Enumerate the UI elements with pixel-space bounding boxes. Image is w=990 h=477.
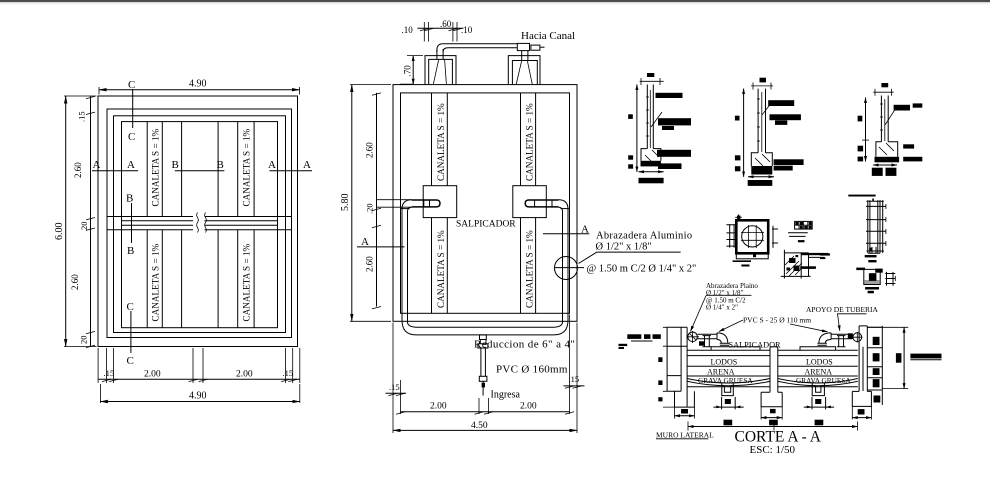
pipe run left [698, 334, 718, 338]
dim .15 bottom-left of tank [386, 392, 407, 394]
svg-text:CANALETA S = 1%: CANALETA S = 1% [525, 230, 535, 308]
left feed pipe black bar [627, 334, 641, 339]
pipe left nozzle bullet [412, 200, 440, 207]
left wall rebar squares [658, 357, 662, 362]
dim 4.50 bottom [393, 315, 577, 434]
wire inner tank rect [401, 93, 570, 313]
circle [742, 226, 763, 247]
svg-text:C: C [127, 301, 134, 313]
label blob top [881, 83, 888, 87]
text blobs right [768, 100, 794, 106]
dim .70 inlet height [412, 56, 414, 85]
svg-text:Ø 1/4" x 2": Ø 1/4" x 2" [706, 304, 738, 312]
wire middle divider lines [107, 217, 292, 230]
wall stem [881, 96, 888, 142]
pedestal right bay [812, 383, 824, 395]
svg-text:.15: .15 [77, 111, 87, 122]
bottom row black squares [724, 420, 733, 426]
wire wall line 2 [107, 109, 292, 338]
top tick [872, 199, 874, 202]
corner detail hatch [785, 256, 803, 276]
funnel right [516, 61, 532, 84]
bottom dim [748, 176, 774, 178]
dim 5.80 left [350, 85, 391, 322]
right dim vertical [867, 327, 908, 388]
svg-text:2.60: 2.60 [365, 142, 375, 158]
pedestal left bay [722, 383, 734, 395]
svg-text:Abrazadera Aluminio: Abrazadera Aluminio [596, 230, 692, 241]
svg-text:.15: .15 [389, 382, 400, 392]
leader diagonal [885, 108, 896, 125]
svg-text:C: C [127, 355, 134, 367]
inlet box left inner [429, 59, 453, 84]
wire channel verticals bottom half [147, 230, 254, 328]
svg-text:PVC S - 25 Ø 110 mm: PVC S - 25 Ø 110 mm [743, 316, 811, 325]
muro lateral (left wall) [667, 327, 687, 407]
wire outer tank rect [393, 85, 577, 322]
svg-text:A: A [127, 159, 135, 171]
label blob top [760, 78, 767, 83]
clamp left (abrazadera) [688, 332, 698, 342]
corner detail thick bar [801, 253, 828, 255]
elbow right (PVC down) [817, 333, 831, 345]
rungs [866, 201, 886, 251]
right wall [859, 326, 867, 392]
svg-text:Ø 1/2" x 1/8": Ø 1/2" x 1/8" [596, 241, 652, 252]
dim 2.00 2.00 bottom [401, 380, 570, 414]
pipe down into right funnel [522, 51, 528, 62]
bottom marks [868, 247, 880, 253]
base rect below [736, 253, 768, 258]
left dim line [743, 89, 745, 177]
svg-text:GRAVA GRUESA: GRAVA GRUESA [698, 376, 753, 385]
right footing [852, 391, 871, 406]
svg-text:.20: .20 [365, 203, 375, 214]
svg-text:CANALETA S = 1%: CANALETA S = 1% [242, 128, 252, 206]
svg-text:LODOS: LODOS [806, 358, 833, 367]
svg-text:CANALETA S = 1%: CANALETA S = 1% [436, 103, 446, 181]
left dashes [820, 253, 830, 255]
svg-text:.15: .15 [283, 368, 294, 378]
svg-text:2.60: 2.60 [73, 162, 83, 178]
svg-text:6.00: 6.00 [54, 223, 65, 241]
funnel left [433, 59, 446, 84]
salpicador box right [513, 186, 547, 218]
right rebar column [867, 326, 882, 405]
svg-text:.10: .10 [402, 25, 414, 35]
wire canaleta strip left [432, 93, 448, 313]
svg-text:A: A [93, 159, 101, 171]
dim 4.90 top [99, 87, 300, 95]
svg-text:.60: .60 [440, 19, 452, 29]
pipe support bracket right [837, 336, 846, 347]
wire divider break marks [196, 214, 205, 233]
grava curves right bay [778, 379, 858, 386]
svg-text:A: A [361, 236, 369, 248]
dim .15 / 2.60 / .20 / 2.60 / .20 inner left [90, 96, 92, 347]
pipe right elbow into salpicador [559, 200, 569, 212]
leader diagonal [651, 112, 662, 127]
svg-text:.15: .15 [104, 368, 115, 378]
dim line top [640, 78, 664, 85]
bars below [865, 255, 877, 257]
svg-text:B: B [126, 193, 133, 205]
reduction fitting bottom center [480, 335, 487, 340]
svg-text:4.90: 4.90 [189, 79, 207, 90]
dim line top [751, 83, 773, 90]
svg-text:2.60: 2.60 [365, 256, 375, 272]
wire channel verticals top half [147, 122, 254, 217]
svg-text:CANALETA S = 1%: CANALETA S = 1% [242, 243, 252, 321]
inlet box right inner [512, 61, 537, 85]
svg-text:MURO LATERAL: MURO LATERAL [656, 430, 714, 439]
wire pipe outer loop along walls and bottom [402, 209, 568, 335]
wire dim extension lines through left wall [377, 200, 412, 208]
dim line top [873, 89, 893, 96]
dim 2.60 .20 2.60 inner left [376, 93, 378, 307]
text blobs right [894, 105, 910, 111]
elbow left (PVC down) [717, 333, 729, 345]
footing [876, 142, 898, 157]
salpicador box left [423, 186, 457, 218]
pipe down into left funnel [437, 49, 443, 59]
svg-text:2.00: 2.00 [520, 402, 537, 412]
outlet nozzle to canal [531, 45, 540, 50]
page top border [0, 0, 990, 2]
inlet box right outer [508, 56, 540, 85]
svg-text:.10: .10 [461, 25, 473, 35]
svg-text:LODOS: LODOS [711, 358, 738, 367]
wire canaleta strip right [521, 93, 536, 313]
grid lines through circle [741, 225, 764, 248]
rotated dim text blob [896, 353, 902, 363]
svg-text:B: B [217, 159, 224, 171]
svg-text:CANALETA S = 1%: CANALETA S = 1% [436, 230, 446, 308]
svg-text:Reduccion de 6" a 4": Reduccion de 6" a 4" [474, 339, 575, 351]
svg-text:A: A [303, 159, 311, 171]
left footing [675, 391, 695, 407]
wall stem [647, 85, 653, 149]
label alimentacion blob [910, 354, 941, 359]
dim 6.00 left [64, 96, 97, 347]
pipe support bracket left [703, 336, 712, 347]
wire inner basin rect [122, 122, 278, 328]
svg-text:APOYO DE TUBERIA: APOYO DE TUBERIA [806, 305, 879, 314]
dim bottom row1 .15 2.00 2.00 .15 [98, 348, 300, 383]
svg-text:2.00: 2.00 [236, 370, 253, 380]
wall left ticks [663, 327, 675, 407]
pipe right nozzle bullet [525, 200, 558, 207]
dim .15 bottom-right of tank [564, 385, 585, 387]
bottom dim [873, 164, 897, 166]
svg-text:4.90: 4.90 [189, 390, 207, 401]
bottom overall dim [688, 426, 858, 428]
svg-text:C: C [128, 131, 135, 143]
bed lines right bay [778, 350, 858, 376]
svg-text:20: 20 [79, 222, 89, 231]
label blob top [647, 73, 654, 77]
svg-text:Hacia Canal: Hacia Canal [521, 30, 575, 42]
svg-text:ESC: 1/50: ESC: 1/50 [750, 444, 796, 456]
left dim line [636, 85, 638, 172]
svg-text:B: B [127, 245, 134, 257]
text blobs near footing [774, 159, 804, 165]
bed lines left bay [687, 350, 770, 376]
corner cross mark [735, 214, 742, 220]
dim .10 .60 .10 top [424, 22, 457, 42]
clamp detail callout circle [555, 257, 578, 280]
text blobs right [656, 93, 683, 98]
wall stem [758, 89, 765, 153]
left bracket [726, 224, 736, 248]
top pipe run with left elbow [437, 44, 517, 52]
salpicador lip left [711, 347, 760, 351]
lines below [733, 260, 751, 262]
wire pipe inner loop [408, 212, 563, 328]
dim bottom 4.90 [100, 384, 299, 403]
svg-text:PVC Ø 160mm: PVC Ø 160mm [496, 364, 568, 376]
svg-text:A: A [268, 159, 276, 171]
middle wall [770, 347, 778, 393]
svg-text:B: B [172, 159, 179, 171]
text blobs right of footing [903, 144, 914, 148]
pipe left elbow into salpicador [402, 200, 412, 212]
fitting black square right [848, 333, 853, 339]
svg-text:CANALETA S = 1%: CANALETA S = 1% [151, 243, 161, 321]
right bracket [772, 226, 778, 248]
svg-text:20: 20 [79, 336, 89, 345]
svg-text:@ 1.50 m C/2 Ø 1/4" x 2": @ 1.50 m C/2 Ø 1/4" x 2" [587, 264, 697, 275]
svg-text:SALPICADOR: SALPICADOR [456, 220, 516, 230]
left dim line [865, 98, 867, 162]
svg-text:CANALETA S = 1%: CANALETA S = 1% [151, 128, 161, 206]
fitting black square [699, 341, 704, 345]
svg-text:.70: .70 [403, 65, 413, 77]
T fitting right [517, 43, 529, 50]
footing [751, 153, 772, 166]
wire outer wall rect [98, 96, 298, 347]
svg-text:2.00: 2.00 [430, 402, 447, 412]
svg-text:4.50: 4.50 [471, 421, 488, 431]
svg-text:GRAVA GRUESA: GRAVA GRUESA [796, 376, 851, 385]
svg-text:5.80: 5.80 [340, 194, 351, 212]
svg-text:2.60: 2.60 [70, 274, 80, 290]
svg-text:SALPICADOR: SALPICADOR [729, 341, 782, 350]
svg-text:Ingresa: Ingresa [491, 390, 521, 401]
rails [868, 200, 883, 253]
svg-text:.15: .15 [569, 374, 580, 384]
top thick line [848, 195, 875, 197]
bottom dim [639, 171, 664, 173]
grava curves left bay [687, 379, 770, 386]
svg-text:2.00: 2.00 [144, 370, 161, 380]
thick square [736, 220, 768, 253]
salpicador lip right [800, 347, 836, 351]
footing [641, 149, 661, 161]
corner joint detail lines [781, 250, 811, 279]
svg-text:CANALETA S = 1%: CANALETA S = 1% [525, 103, 535, 181]
leader diagonal [762, 102, 772, 115]
middle footing [761, 392, 782, 407]
wire wall line 3 [114, 116, 286, 333]
pipe run right [831, 334, 852, 338]
clamp right [853, 333, 862, 342]
right mini bracket [885, 272, 895, 286]
inlet box left outer [425, 56, 456, 85]
